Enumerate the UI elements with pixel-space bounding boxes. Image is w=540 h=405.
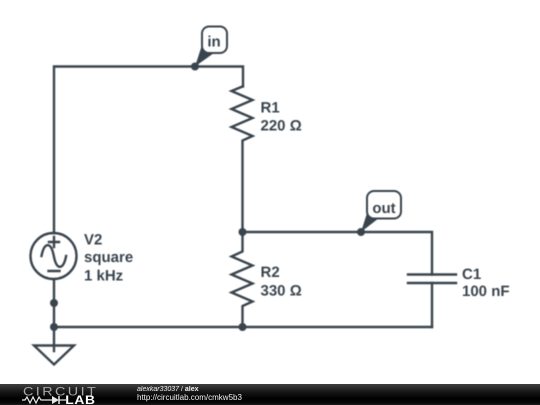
svg-text:square: square [84, 249, 133, 266]
svg-text:R1: R1 [261, 100, 280, 117]
svg-text:1 kHz: 1 kHz [84, 268, 123, 285]
svg-text:100 nF: 100 nF [462, 283, 510, 300]
svg-text:330 Ω: 330 Ω [261, 283, 302, 300]
svg-text:V2: V2 [84, 232, 102, 249]
svg-text:220 Ω: 220 Ω [261, 118, 302, 135]
svg-text:in: in [207, 34, 220, 51]
svg-text:LAB: LAB [65, 393, 95, 405]
svg-text:C1: C1 [462, 266, 481, 283]
svg-text:out: out [372, 200, 395, 217]
svg-text:R2: R2 [261, 264, 280, 281]
